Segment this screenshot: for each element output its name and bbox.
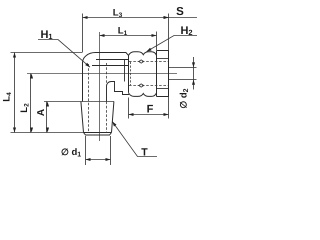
svg-text:T: T xyxy=(141,146,148,158)
nut H2 right face xyxy=(156,51,158,97)
nut hidden thread bottom xyxy=(129,85,169,87)
A extension and thread shoulder xyxy=(44,101,114,103)
extension d1 left xyxy=(85,136,87,165)
extension F left xyxy=(128,98,130,119)
hidden diamond top xyxy=(139,60,144,63)
thread root hidden right xyxy=(106,63,108,133)
nut hidden thread end xyxy=(130,62,132,85)
port upper line 2 xyxy=(92,65,129,67)
L2 arrow bottom xyxy=(30,128,33,133)
L3 arrow left xyxy=(83,16,88,19)
L1 arrow left xyxy=(100,34,105,37)
collar shelf top xyxy=(157,58,169,60)
S dimension line xyxy=(169,17,198,19)
S arrow xyxy=(164,16,169,19)
L3 dimension line xyxy=(83,17,169,19)
extension L3 left xyxy=(82,14,84,53)
T leader xyxy=(112,122,157,157)
A arrow top xyxy=(46,102,49,107)
phi d1 dimension line xyxy=(86,159,111,161)
extension d1 right xyxy=(110,136,112,165)
d1 arrow left xyxy=(86,158,91,161)
F arrow right xyxy=(164,113,169,116)
port washer line xyxy=(124,59,126,81)
tube stub bottom edge xyxy=(169,79,197,81)
d1 arrow right xyxy=(106,158,111,161)
svg-text:A: A xyxy=(36,109,47,116)
horizontal centerline xyxy=(27,73,177,75)
phi d2 dimension line xyxy=(193,57,195,90)
extension L1 right xyxy=(156,32,158,51)
male taper thread outline T xyxy=(81,102,114,136)
svg-text:S: S xyxy=(176,6,184,18)
extension L3/S right xyxy=(168,14,170,51)
d2 arrow top xyxy=(192,62,195,67)
nut H2 left face xyxy=(128,55,130,92)
collar S outline xyxy=(157,51,169,97)
L1 arrow right xyxy=(152,34,157,37)
A dimension line xyxy=(46,102,48,133)
L2 arrow top xyxy=(30,74,33,79)
H1 leader xyxy=(38,40,90,68)
L3 arrow right xyxy=(164,16,169,19)
F dimension line xyxy=(129,114,169,116)
H1 leader arrowhead xyxy=(85,63,90,67)
A arrow bottom xyxy=(46,128,49,133)
tube stub top edge xyxy=(169,67,197,69)
extension top left xyxy=(11,52,83,54)
extension F right xyxy=(168,97,170,119)
hidden diamond bottom xyxy=(139,84,144,87)
nut H2 bottom lobes xyxy=(129,93,157,97)
nut H2 top lobes xyxy=(129,52,157,56)
L4 arrow bottom xyxy=(13,128,16,133)
collar shelf bottom xyxy=(157,88,169,90)
vertical centerline xyxy=(99,32,101,141)
body lower right profile steps xyxy=(106,81,129,101)
svg-text:F: F xyxy=(147,103,154,115)
L1 dimension line xyxy=(100,35,157,37)
L4 arrow top xyxy=(13,53,16,58)
thread root hidden left xyxy=(88,64,90,133)
extension bottom left xyxy=(11,132,84,134)
d2 arrow bottom xyxy=(192,80,195,85)
H2 leader arrowhead xyxy=(147,48,152,52)
port upper line 1 xyxy=(96,59,129,61)
H2 leader xyxy=(147,36,198,52)
L2 dimension line xyxy=(30,74,32,133)
L4 dimension line xyxy=(14,53,16,133)
F arrow left xyxy=(129,113,134,116)
body outline with fillet xyxy=(82,53,128,102)
nut hidden thread top xyxy=(129,61,169,63)
T leader arrowhead xyxy=(112,122,116,127)
